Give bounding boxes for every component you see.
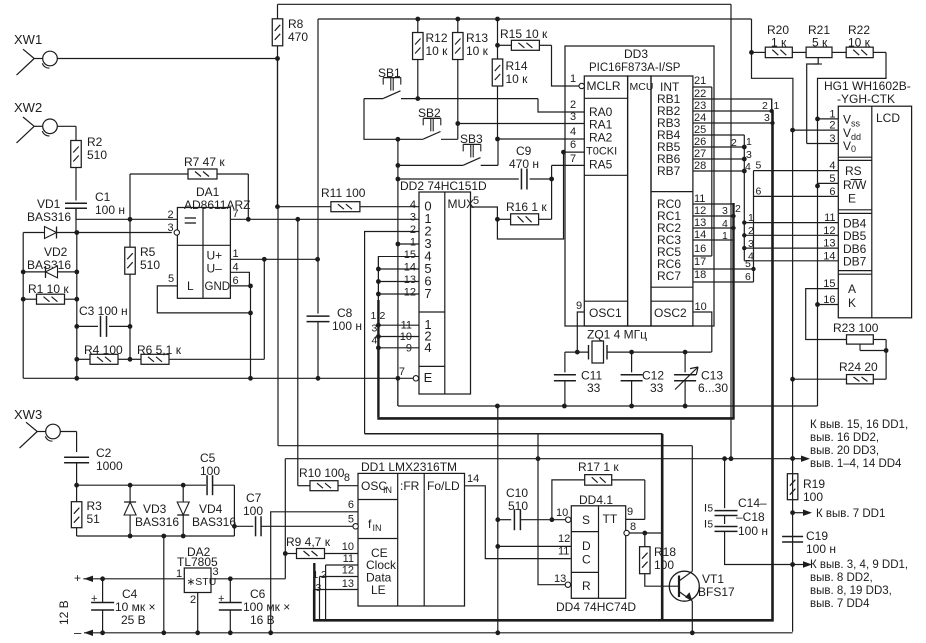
- capacitor C13 trimmer: [674, 352, 728, 406]
- svg-text:18: 18: [694, 269, 706, 281]
- capacitor C8: [307, 19, 362, 381]
- svg-text:11: 11: [694, 193, 705, 205]
- wire to DD4 R: [538, 434, 565, 585]
- annotation 7 DD1: [793, 508, 886, 520]
- svg-text:2: 2: [410, 224, 416, 236]
- svg-text:33: 33: [650, 381, 664, 395]
- svg-text:RA1: RA1: [589, 118, 613, 132]
- wire left ground column: [74, 233, 79, 381]
- svg-text:OSC2: OSC2: [654, 306, 687, 320]
- svg-text:13: 13: [554, 573, 566, 585]
- svg-text:C3 100 н: C3 100 н: [79, 304, 128, 318]
- svg-text:3: 3: [410, 212, 416, 224]
- ground rail left: [23, 377, 413, 379]
- svg-text:6: 6: [233, 275, 239, 287]
- svg-text:R10 100: R10 100: [299, 466, 345, 480]
- wire E to LCD: [754, 186, 839, 198]
- svg-text:4: 4: [722, 218, 728, 230]
- svg-text:–: –: [74, 625, 82, 640]
- svg-text:BAS316: BAS316: [192, 515, 236, 529]
- svg-text:DB5: DB5: [843, 229, 867, 243]
- DD3 pin 17 wire: [693, 258, 756, 271]
- DD1 fin cell: [368, 517, 382, 533]
- svg-text:23: 23: [694, 100, 706, 112]
- capacitor C4 electrolytic: [91, 579, 156, 635]
- svg-text:R18: R18: [654, 545, 676, 559]
- wire +5V rail: [318, 17, 752, 22]
- svg-text:-YGH-CTK: -YGH-CTK: [837, 92, 895, 106]
- svg-text:R12: R12: [426, 31, 448, 45]
- svg-text:2: 2: [762, 100, 768, 112]
- resistor R21 trimmer: [806, 23, 846, 144]
- wire XW1 node down: [278, 58, 693, 446]
- svg-text:510: 510: [508, 499, 528, 513]
- svg-text:D: D: [582, 539, 591, 553]
- DD3 pin 1 MCLR: [570, 73, 584, 89]
- DA1 pin 5 wire: [157, 273, 253, 381]
- svg-text:3: 3: [722, 205, 728, 217]
- svg-text:–C18: –C18: [736, 510, 765, 524]
- DD4 pin 12: [558, 533, 570, 545]
- svg-text:BAS316: BAS316: [27, 210, 71, 224]
- svg-text:R2: R2: [87, 135, 103, 149]
- DD3 pin 14 wire: [693, 239, 734, 241]
- DD3 pin 28 wire: [693, 169, 747, 174]
- capacitor C9: [398, 144, 554, 190]
- svg-text:C8: C8: [337, 306, 353, 320]
- annotation gnd pins: [793, 559, 909, 610]
- DD3 pin 13 wire: [693, 227, 734, 229]
- svg-text:3: 3: [168, 222, 174, 234]
- svg-text:100 н: 100 н: [806, 542, 836, 556]
- svg-text:AD8611ARZ: AD8611ARZ: [184, 198, 250, 212]
- svg-text:1: 1: [722, 230, 728, 242]
- svg-text:470 н: 470 н: [509, 157, 539, 171]
- transistor VT1 BFS17: [669, 571, 735, 601]
- svg-text:XW3: XW3: [14, 407, 42, 422]
- DD3 left column: [584, 76, 627, 326]
- svg-text:26: 26: [694, 136, 706, 148]
- svg-text:DD2 74HC151D: DD2 74HC151D: [400, 179, 487, 193]
- svg-text:R: R: [582, 579, 591, 593]
- svg-text:100 н: 100 н: [738, 524, 768, 538]
- svg-text:1: 1: [313, 569, 319, 581]
- svg-text:2: 2: [380, 310, 386, 322]
- svg-text:R23 100: R23 100: [833, 321, 879, 335]
- svg-text:1: 1: [746, 136, 752, 148]
- svg-text:U–: U–: [207, 262, 223, 276]
- svg-text:R13: R13: [466, 31, 488, 45]
- DD3 pin 7: [570, 153, 576, 165]
- svg-text:6: 6: [756, 186, 762, 198]
- svg-text:TT: TT: [603, 512, 618, 526]
- LCD HG1 box: [838, 106, 911, 318]
- svg-text:12: 12: [558, 533, 570, 545]
- svg-text:VD1: VD1: [37, 197, 61, 211]
- DD3 pin 2: [565, 99, 584, 112]
- group bundle right thick: [313, 99, 774, 620]
- capacitor C7: [234, 491, 355, 536]
- resistor R5: [125, 219, 161, 359]
- svg-text:5: 5: [473, 195, 479, 207]
- capacitor C5: [200, 451, 237, 529]
- svg-text:DD4.1: DD4.1: [579, 493, 613, 507]
- DD3 pin 16 wire: [693, 255, 712, 257]
- svg-text:выв. 20 DD3,: выв. 20 DD3,: [810, 445, 879, 457]
- svg-text:C5: C5: [200, 451, 216, 465]
- svg-text:2: 2: [321, 569, 327, 581]
- wire diode top rail: [77, 483, 206, 488]
- group bundle B vertical: [661, 434, 664, 621]
- svg-text:7: 7: [424, 286, 431, 301]
- regulator DA2 TL7805: [177, 545, 218, 593]
- svg-text:12: 12: [404, 287, 416, 299]
- svg-text:4: 4: [745, 161, 751, 173]
- svg-text:9: 9: [576, 300, 582, 312]
- connector XW2: [14, 100, 57, 143]
- DD4 pin 9 wire: [626, 506, 645, 519]
- wire DA1 pin2: [76, 208, 177, 219]
- svg-text:DB7: DB7: [843, 255, 867, 269]
- svg-text:100: 100: [243, 504, 263, 518]
- capacitor C10: [495, 406, 567, 635]
- diode VD2: [23, 245, 79, 278]
- svg-text:MCLR: MCLR: [587, 79, 621, 93]
- svg-text:13: 13: [404, 274, 416, 286]
- svg-text:C19: C19: [806, 529, 828, 543]
- wire diode bottom rail: [77, 526, 235, 538]
- svg-text:+: +: [74, 571, 81, 585]
- bundle numbers RC: [722, 203, 741, 242]
- resistor R7: [128, 155, 251, 222]
- DD4 pin 11: [558, 546, 569, 558]
- wire LCD pin5: [818, 182, 839, 184]
- wire ground lower: [398, 378, 818, 408]
- svg-text:10 к: 10 к: [466, 44, 489, 58]
- svg-text:ss: ss: [851, 119, 861, 129]
- LCD pin names: [843, 113, 867, 311]
- svg-text:BAS316: BAS316: [135, 515, 179, 529]
- svg-text:R8: R8: [288, 17, 304, 31]
- resistor R12: [413, 19, 449, 99]
- DD3 pin 23 wire: [693, 109, 774, 113]
- svg-text:100 н: 100 н: [332, 319, 362, 333]
- diode VD4: [177, 485, 236, 538]
- svg-text:14: 14: [823, 250, 835, 262]
- resistor R22: [815, 23, 886, 406]
- diode VD1: [23, 197, 172, 239]
- LCD pin numbers: [823, 108, 835, 306]
- svg-text:VD2: VD2: [44, 245, 68, 259]
- svg-text:100: 100: [654, 558, 674, 572]
- svg-text:выв. 8, 19 DD3,: выв. 8, 19 DD3,: [810, 585, 892, 597]
- svg-text:28: 28: [694, 160, 706, 172]
- wire DB7 to LCD: [744, 251, 838, 263]
- svg-text:S: S: [582, 513, 590, 527]
- svg-text:0: 0: [851, 144, 856, 154]
- svg-text:33: 33: [587, 381, 601, 395]
- svg-text:15: 15: [404, 249, 416, 261]
- svg-text:IN: IN: [373, 523, 382, 533]
- wire DD2pin2 line: [365, 433, 663, 435]
- svg-text:R5: R5: [140, 245, 156, 259]
- wire LCD pin16: [818, 304, 839, 306]
- node pin3 left vertical: [21, 233, 26, 379]
- DD3 pin 12 wire: [693, 215, 734, 217]
- svg-text:100: 100: [803, 490, 823, 504]
- svg-text:10: 10: [342, 541, 354, 553]
- wire C2 down: [74, 463, 79, 488]
- DD3 pin 6: [570, 139, 576, 151]
- svg-text:C10: C10: [506, 486, 528, 500]
- DA1 pin 4 wire: [230, 262, 249, 286]
- trigger DD4.1 74HC74D: [571, 493, 625, 598]
- svg-text:DD3: DD3: [624, 47, 648, 61]
- svg-text:3: 3: [213, 566, 219, 578]
- DD3 right pin names: [657, 80, 681, 178]
- svg-text:7: 7: [399, 366, 405, 378]
- DD1 pin 13 wire: [314, 578, 359, 620]
- svg-text:4: 4: [424, 340, 431, 355]
- resistor R18: [640, 533, 678, 586]
- wire LCD pin15 A: [806, 289, 847, 340]
- wire C1 to pin3 node: [74, 208, 79, 235]
- capacitor C6 electrolytic: [218, 579, 290, 635]
- button SB1: [364, 66, 565, 112]
- svg-text:4: 4: [829, 160, 835, 172]
- DD1 pin 11 wire: [313, 553, 359, 620]
- capacitor C12: [621, 352, 665, 406]
- svg-text:2: 2: [735, 203, 741, 215]
- svg-text:HG1 WH1602B-: HG1 WH1602B-: [824, 79, 911, 93]
- DD3 RB pin numbers: [694, 88, 706, 172]
- svg-text:Fo/LD: Fo/LD: [427, 479, 460, 493]
- wire DB4 to LCD: [742, 212, 838, 225]
- wire XW3 to C2: [60, 432, 76, 453]
- VT1 emitter wire: [690, 601, 695, 635]
- svg-text:C2: C2: [96, 446, 112, 460]
- DD3 pin 22 wire: [693, 99, 772, 110]
- svg-text:7: 7: [233, 208, 239, 220]
- capacitor C11: [554, 352, 603, 406]
- svg-text:RA2: RA2: [589, 131, 613, 145]
- wire LCD pin1: [818, 118, 839, 120]
- resistor R11: [275, 186, 419, 212]
- wire +5V right column: [790, 130, 795, 632]
- bundle numbers RB: [762, 100, 780, 124]
- svg-text:6: 6: [348, 499, 354, 511]
- DD3 pin 21: [693, 75, 712, 256]
- svg-text:1: 1: [410, 237, 416, 249]
- DD3 OSC2 cell: [654, 306, 687, 320]
- svg-text:1000: 1000: [96, 459, 123, 473]
- svg-text:3: 3: [570, 111, 576, 123]
- wire to DD4 D: [495, 544, 571, 549]
- svg-text:RB7: RB7: [657, 164, 681, 178]
- wire VD ground drop: [161, 536, 166, 635]
- DA1 pin 2 label: [168, 209, 174, 221]
- svg-text:R17 1 к: R17 1 к: [578, 460, 619, 474]
- svg-text:6...30: 6...30: [698, 381, 728, 395]
- svg-text:1: 1: [371, 310, 377, 322]
- svg-text:выв. 1–4, 14 DD4: выв. 1–4, 14 DD4: [810, 458, 902, 470]
- svg-text:10 к: 10 к: [506, 72, 529, 86]
- svg-text:4: 4: [372, 335, 378, 347]
- svg-text:DA1: DA1: [196, 185, 220, 199]
- wire DA1 out down to R10: [297, 219, 299, 485]
- svg-text:C6: C6: [250, 587, 266, 601]
- DA1 pin 3: [168, 222, 180, 235]
- multiplexer DD2 74HC151D: [400, 179, 487, 394]
- svg-text:R/W: R/W: [843, 178, 867, 192]
- svg-text:E: E: [848, 192, 856, 206]
- svg-text:RA5: RA5: [589, 158, 613, 172]
- svg-text:DD4 74HC74D: DD4 74HC74D: [556, 600, 636, 614]
- resistor R3: [71, 485, 102, 536]
- crystal ZQ1: [565, 328, 712, 364]
- svg-text:2: 2: [570, 99, 576, 111]
- capacitor C3: [77, 304, 133, 337]
- svg-text:VT1: VT1: [702, 572, 724, 586]
- svg-text:C7: C7: [246, 491, 262, 505]
- svg-text:C1: C1: [95, 190, 111, 204]
- DD2 pin 5 out: [471, 195, 498, 219]
- svg-text:GND: GND: [205, 281, 231, 293]
- svg-text:4: 4: [570, 126, 576, 138]
- svg-text:C14–: C14–: [738, 496, 767, 510]
- wire XW1 to R8 node: [57, 56, 280, 61]
- DA2 pin 3 wire: [211, 459, 285, 581]
- svg-text:16: 16: [694, 243, 706, 255]
- svg-text:RS: RS: [845, 164, 862, 178]
- svg-text:17: 17: [694, 256, 706, 268]
- VT1 collector wire: [691, 446, 693, 572]
- svg-text:24: 24: [694, 112, 706, 124]
- svg-text:100 н: 100 н: [95, 203, 125, 217]
- wire rail to R20: [749, 19, 793, 130]
- DA1 pin 7 output wire: [230, 208, 419, 222]
- DD2 pin 1 wire: [396, 242, 420, 247]
- DD3 pin 24 wire: [693, 121, 775, 125]
- svg-text:VD3: VD3: [143, 502, 167, 516]
- button SB3: [396, 132, 566, 168]
- capacitor C19: [782, 529, 836, 556]
- svg-text:К выв. 7 DD1: К выв. 7 DD1: [816, 508, 885, 520]
- svg-text:6: 6: [829, 186, 835, 198]
- resistor R9: [283, 535, 358, 559]
- svg-text:2: 2: [731, 137, 737, 149]
- DA1 pin 6 wire: [230, 275, 253, 288]
- resistor R23: [833, 321, 888, 379]
- svg-text:5: 5: [348, 514, 354, 526]
- wire C9 to pin7: [552, 165, 585, 179]
- annotation +5V pins: [793, 419, 909, 470]
- svg-text:3: 3: [746, 149, 752, 161]
- svg-text:LE: LE: [371, 583, 386, 597]
- DD2 pin 2 wire: [365, 232, 419, 434]
- wire XW2 to R2: [57, 126, 76, 140]
- wire DB6 to LCD: [742, 238, 838, 250]
- DD3 pin 9: [576, 300, 584, 352]
- svg-text:10 к: 10 к: [426, 44, 449, 58]
- svg-text:T0CKI: T0CKI: [586, 146, 617, 158]
- svg-text:12: 12: [694, 205, 706, 217]
- svg-text:1: 1: [570, 73, 576, 85]
- DD2 left pin numbers: [404, 199, 416, 299]
- svg-text:1: 1: [774, 100, 780, 112]
- svg-text:5: 5: [708, 504, 714, 515]
- DD2 pin 3 row: [418, 218, 420, 220]
- DD2 pin 7 E: [399, 366, 405, 378]
- svg-text:2: 2: [190, 594, 196, 606]
- svg-text:IN: IN: [383, 485, 392, 495]
- svg-text:dd: dd: [851, 132, 861, 142]
- resistor R10: [298, 466, 358, 491]
- resistor R24: [790, 360, 886, 384]
- svg-text:2: 2: [168, 209, 174, 221]
- svg-text:12 В: 12 В: [57, 600, 71, 625]
- svg-text:R19: R19: [803, 477, 825, 491]
- svg-text:5: 5: [756, 160, 762, 172]
- svg-text:C4: C4: [122, 587, 138, 601]
- svg-text:A: A: [848, 282, 856, 296]
- resistor R8: [272, 4, 308, 206]
- svg-text:3: 3: [764, 112, 770, 124]
- svg-text:ZQ1 4 МГц: ZQ1 4 МГц: [587, 328, 647, 342]
- svg-text:BFS17: BFS17: [698, 585, 735, 599]
- op-amp DA1 AD8611ARZ: [177, 185, 250, 298]
- wire LCD pin3 V0: [807, 143, 839, 145]
- svg-text:12: 12: [342, 565, 354, 577]
- svg-text:E: E: [424, 370, 433, 385]
- DD1 CE cell: [366, 546, 397, 597]
- wire MUX to TOCKI: [497, 150, 584, 239]
- DD1 pin 14 wire: [465, 473, 572, 559]
- svg-text:100: 100: [200, 464, 220, 478]
- svg-text:MCU: MCU: [630, 81, 654, 93]
- DD4 pin 8 wire: [624, 521, 662, 536]
- DD3 pin 18 wire: [693, 171, 754, 283]
- LCD HG1 WH1602B label: [824, 79, 911, 106]
- DD3 MCU column: [628, 76, 654, 326]
- svg-text:8: 8: [630, 521, 636, 533]
- resistor R15: [495, 27, 581, 86]
- DD3 pin 10: [693, 301, 712, 352]
- DA2 pin 1 wire +12V rail: [74, 568, 184, 585]
- DD3 right column: [651, 76, 693, 326]
- svg-text:510: 510: [87, 148, 107, 162]
- svg-text:1: 1: [233, 248, 239, 260]
- svg-text:12: 12: [823, 225, 835, 237]
- svg-text:22: 22: [694, 88, 706, 100]
- svg-text:R14: R14: [506, 59, 528, 73]
- DD2 E cell: [413, 370, 432, 385]
- svg-text:25 В: 25 В: [121, 613, 146, 627]
- svg-text:14: 14: [404, 262, 416, 274]
- svg-text:R11 100: R11 100: [321, 186, 366, 200]
- svg-text:14: 14: [467, 473, 479, 485]
- wire RS to LCD: [754, 160, 839, 172]
- DD3 pin 4: [565, 126, 584, 139]
- resistor R16: [495, 179, 552, 225]
- DD1 pin 5: [348, 514, 358, 530]
- svg-text:14: 14: [694, 229, 706, 241]
- resistor R13: [453, 19, 489, 124]
- svg-text:10 мк ×: 10 мк ×: [115, 600, 156, 614]
- svg-text:11: 11: [558, 546, 569, 558]
- svg-text:выв. 16 DD2,: выв. 16 DD2,: [810, 432, 879, 444]
- resistor R17: [552, 460, 645, 520]
